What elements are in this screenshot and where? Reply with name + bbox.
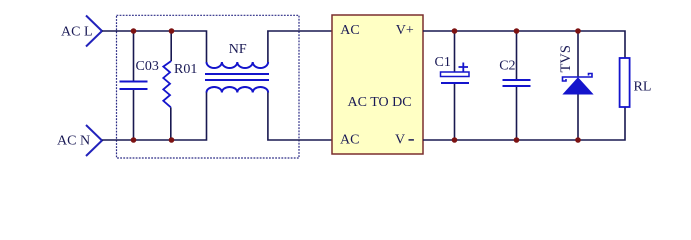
junction bottom TVS: [575, 137, 581, 143]
svg-text:AC: AC: [340, 23, 359, 38]
junction bottom C1: [452, 137, 458, 143]
capacitor C1 (polarized): [435, 31, 470, 140]
wire bottom left (AC N to NF): [102, 93, 207, 141]
svg-text:R01: R01: [174, 62, 197, 77]
junction top R01: [169, 28, 175, 34]
TVS cathode bar with zener hooks: [563, 74, 593, 82]
svg-text:C2: C2: [499, 59, 515, 74]
svg-text:NF: NF: [229, 42, 247, 57]
junction top C2: [514, 28, 520, 34]
junction bottom R01: [169, 137, 175, 143]
svg-text:V+: V+: [396, 23, 414, 38]
TVS triangle: [564, 78, 593, 94]
svg-text:AC TO DC: AC TO DC: [348, 95, 412, 110]
junction top C1: [452, 28, 458, 34]
junction bottom C03: [131, 137, 137, 143]
svg-text:RL: RL: [634, 80, 652, 95]
EMI filter dashed box: [117, 15, 300, 158]
common-mode choke NF: [205, 42, 269, 93]
converter module U1 AC TO DC: [332, 15, 423, 154]
NF top winding: [207, 62, 269, 68]
TVS diode: [558, 31, 593, 140]
junction top TVS: [575, 28, 581, 34]
port AC N: [57, 125, 102, 156]
svg-text:AC: AC: [340, 133, 359, 148]
wire V+ rail: [423, 31, 625, 58]
svg-text:C03: C03: [136, 59, 159, 74]
wire V- rail: [423, 107, 625, 140]
svg-text:V: V: [395, 133, 405, 148]
junction top C03: [131, 28, 137, 34]
port AC L: [61, 16, 102, 47]
NF bottom winding: [207, 87, 269, 93]
wire top left (AC L to NF): [102, 31, 207, 62]
svg-text:AC N: AC N: [57, 134, 90, 149]
capacitor C2: [499, 31, 530, 140]
junction bottom C2: [514, 137, 520, 143]
capacitor C03: [120, 31, 159, 140]
wire NF to converter AC bottom pin: [268, 93, 332, 141]
NF core: [205, 73, 269, 75]
load resistor RL: [620, 58, 652, 107]
resistor R01: [163, 31, 197, 140]
wire NF to converter AC top pin: [268, 31, 332, 62]
svg-text:C1: C1: [435, 55, 451, 70]
svg-text:AC L: AC L: [61, 25, 93, 40]
svg-text:TVS: TVS: [558, 45, 574, 72]
